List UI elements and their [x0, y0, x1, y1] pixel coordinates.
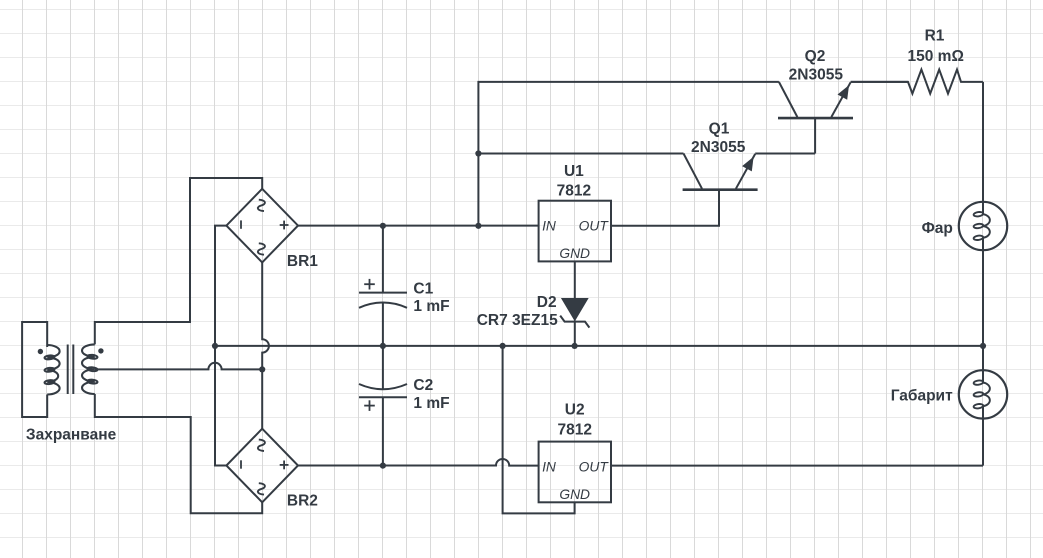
svg-text:OUT: OUT — [579, 459, 610, 474]
svg-text:Фар: Фар — [922, 220, 953, 237]
svg-text:OUT: OUT — [579, 219, 610, 234]
svg-text:BR1: BR1 — [287, 253, 318, 270]
svg-text:7812: 7812 — [557, 422, 591, 439]
svg-text:150 mΩ: 150 mΩ — [908, 48, 964, 65]
svg-text:1 mF: 1 mF — [413, 395, 449, 412]
svg-text:Q2: Q2 — [805, 48, 826, 65]
svg-text:Q1: Q1 — [709, 121, 730, 138]
svg-text:IN: IN — [542, 459, 556, 474]
svg-text:GND: GND — [559, 487, 590, 502]
svg-text:U2: U2 — [565, 402, 585, 419]
svg-text:R1: R1 — [925, 27, 945, 44]
svg-text:2N3055: 2N3055 — [691, 139, 746, 156]
svg-text:Захранване: Захранване — [26, 427, 117, 444]
svg-text:2N3055: 2N3055 — [789, 66, 844, 83]
svg-text:CR7 3EZ15: CR7 3EZ15 — [477, 312, 558, 329]
svg-text:D2: D2 — [537, 294, 557, 311]
svg-text:C1: C1 — [413, 280, 433, 297]
svg-text:Габарит: Габарит — [891, 387, 953, 404]
svg-text:GND: GND — [559, 246, 590, 261]
svg-text:IN: IN — [542, 219, 556, 234]
svg-text:1 mF: 1 mF — [413, 298, 449, 315]
svg-text:BR2: BR2 — [287, 493, 318, 510]
svg-text:7812: 7812 — [557, 183, 591, 200]
svg-text:C2: C2 — [413, 377, 433, 394]
svg-text:U1: U1 — [564, 163, 584, 180]
